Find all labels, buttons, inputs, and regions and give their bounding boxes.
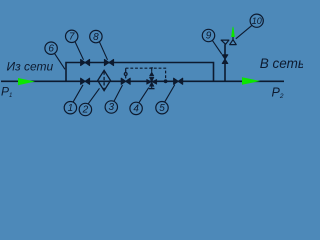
svg-text:2: 2 <box>82 105 89 116</box>
leader line 9 <box>212 40 222 54</box>
svg-text:В сеть: В сеть <box>260 56 303 71</box>
callout circle 10 <box>250 14 263 27</box>
leader line 5 <box>165 85 175 102</box>
callout circle 7 <box>66 30 78 42</box>
callout circle 5 <box>156 102 168 114</box>
flow arrow right <box>242 77 260 85</box>
svg-text:10: 10 <box>252 16 262 26</box>
valve V1 <box>81 78 90 84</box>
regulator valve V4 <box>147 68 157 89</box>
leader line 4 <box>139 88 149 103</box>
svg-text:8: 8 <box>93 32 99 43</box>
wire main pipe <box>1 80 284 82</box>
svg-text:3: 3 <box>109 102 115 113</box>
callout circle 9 <box>202 29 214 41</box>
svg-text:9: 9 <box>206 31 212 42</box>
callout circle 8 <box>90 30 102 42</box>
valve V3 <box>121 78 130 84</box>
wire bypass top <box>66 63 214 82</box>
impulse line dashed <box>126 68 166 80</box>
callout circle 4 <box>130 102 142 114</box>
vent arrow green <box>231 26 235 37</box>
leader line 10 <box>236 25 252 39</box>
leader line 2 <box>88 88 99 103</box>
callout circle 1 <box>64 102 76 114</box>
svg-text:1: 1 <box>68 103 74 114</box>
valve stem V3 with knob <box>124 68 127 78</box>
filter F2 diamond <box>98 70 111 90</box>
junction node dot <box>164 79 168 83</box>
valve V9 vertical <box>222 55 228 64</box>
svg-text:5: 5 <box>159 103 165 114</box>
svg-text:7: 7 <box>69 32 75 43</box>
callout circle 2 <box>79 103 91 115</box>
svg-text:Из сети: Из сети <box>7 60 54 74</box>
wire safety riser <box>224 44 226 81</box>
valve V7 <box>81 59 90 65</box>
flow arrow left <box>18 78 35 85</box>
svg-text:6: 6 <box>48 43 54 54</box>
valve V8 <box>104 59 113 65</box>
safety valve SV <box>221 37 236 45</box>
leader line 8 <box>99 42 107 60</box>
leader line 6 <box>55 54 65 70</box>
leader line 7 <box>75 42 84 60</box>
leader line 3 <box>114 85 123 101</box>
callout circle 3 <box>105 101 117 113</box>
svg-text:4: 4 <box>133 104 139 115</box>
valve V5 <box>174 78 183 84</box>
callout circle 6 <box>45 42 57 54</box>
leader line 1 <box>73 85 83 102</box>
